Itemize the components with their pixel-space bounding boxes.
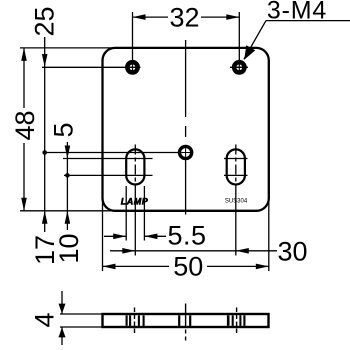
- centerline vertical main: [185, 40, 187, 215]
- svg-text:SUS304: SUS304: [225, 199, 248, 205]
- svg-text:10: 10: [54, 233, 84, 263]
- dim 25 / 17 chain line at x44.7: [30, 6, 60, 265]
- hole center M4: [180, 146, 192, 158]
- svg-text:25: 25: [30, 6, 60, 36]
- extension line center hole row y152.5: [43, 152, 186, 154]
- dim 48 line at x24: [10, 48, 40, 211]
- hole top-right M4: [234, 12, 244, 73]
- svg-text:5.5: 5.5: [167, 220, 206, 250]
- dim 5.5 row: [104, 186, 207, 250]
- dim 4 side view: [30, 291, 103, 345]
- side view left slot centerline: [134, 308, 136, 334]
- extension line top edge left: [20, 47, 116, 49]
- right hole horizontal tick: [230, 66, 248, 68]
- svg-text:32: 32: [169, 2, 199, 32]
- svg-text:30: 30: [277, 236, 307, 266]
- side view right slot centerline: [236, 308, 238, 334]
- side view hidden lines right slot group: [228, 315, 244, 326]
- side view hidden lines left slot group: [127, 315, 144, 326]
- side view main centerline: [185, 304, 187, 328]
- dim 32 top: [133, 2, 240, 32]
- extension line slot lower arc row y175.4: [64, 174, 153, 176]
- right slot upper arc tick: [224, 158, 248, 160]
- svg-text:50: 50: [173, 252, 203, 282]
- extension line bottom edge left: [20, 210, 116, 212]
- label 3-M4 with leader: [244, 0, 350, 60]
- slot right: [227, 149, 245, 184]
- svg-text:4: 4: [30, 312, 60, 327]
- side view hidden lines center hole: [179, 315, 190, 326]
- hole top-left M4: [127, 12, 137, 73]
- slot centerline left: [134, 145, 136, 189]
- svg-text:48: 48: [10, 110, 40, 140]
- slot centerline right: [235, 145, 237, 189]
- extension line slot upper arc row y158.5: [63, 158, 153, 160]
- side view plate: [103, 314, 269, 327]
- slot left: [126, 149, 144, 184]
- svg-text:5: 5: [49, 122, 79, 137]
- dim 50 row: [103, 197, 269, 282]
- dim 5 / 10 chain line at x67.4: [49, 122, 85, 263]
- right slot lower arc tick: [224, 174, 248, 176]
- plate outline front view: [103, 48, 269, 211]
- extension line hole row y67: [42, 66, 141, 68]
- dim 30 row: [110, 236, 308, 266]
